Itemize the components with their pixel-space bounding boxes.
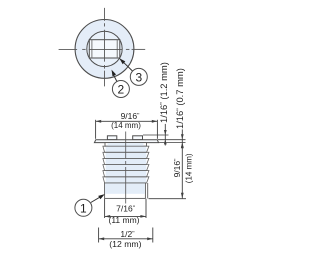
body-bottom extension line <box>149 198 187 200</box>
thread ridge 5 <box>103 171 149 177</box>
arrowhead down (boss height) <box>164 130 167 135</box>
balloon 2 leader line <box>113 74 117 82</box>
balloon 3 circle <box>130 68 147 85</box>
slot chamfer line right <box>116 40 118 58</box>
slot chamfer line left <box>91 40 93 58</box>
dimension line (thread dia) <box>99 238 153 240</box>
balloon 1 leader arrowhead <box>98 194 105 199</box>
arrowhead right (thread dia) <box>147 237 153 240</box>
svg-text:(11 mm): (11 mm) <box>108 215 139 225</box>
boss bump right (slot wall, front view) <box>133 136 143 140</box>
boss-top extension line <box>143 134 169 136</box>
arrowhead left (flange width) <box>96 120 102 123</box>
svg-text:(14 mm): (14 mm) <box>111 121 141 130</box>
thread core fill <box>106 146 147 183</box>
extension line left (flange width) <box>95 120 97 139</box>
arrowhead up (body length) <box>181 143 184 149</box>
slot rectangle (drive recess) <box>89 40 120 58</box>
vertical center line (front view) <box>125 132 127 204</box>
thread ridge 1 <box>103 146 149 152</box>
extension line right (pilot dia) <box>145 199 147 218</box>
horizontal center line (top view) <box>59 48 146 50</box>
flange-top extension line <box>158 139 186 141</box>
extension line left (pilot dia) <box>104 199 106 218</box>
thread ridge 3 <box>103 158 149 164</box>
arrowhead left (thread dia) <box>99 237 105 240</box>
arrowhead up (boss height) <box>164 139 167 144</box>
svg-text:1/16" (0.7 mm): 1/16" (0.7 mm) <box>174 68 185 129</box>
thread ridge 4 <box>103 165 149 171</box>
dimension line (pilot dia) <box>105 215 146 217</box>
dimension line (flange width) <box>96 120 158 122</box>
svg-text:(12 mm): (12 mm) <box>109 239 141 249</box>
extension line left (thread dia) <box>98 228 100 243</box>
flange (front view) <box>94 140 158 143</box>
extension line right (thread dia) <box>152 228 154 243</box>
arrowhead down (flange thickness) <box>181 134 184 139</box>
svg-text:9/16": 9/16" <box>121 111 141 121</box>
flange-bottom extension line <box>159 142 186 144</box>
svg-text:1/2": 1/2" <box>120 229 135 239</box>
balloon 1 circle <box>75 199 92 216</box>
arrowhead left (pilot dia) <box>105 215 111 218</box>
outer circle (flange rim, top view) <box>75 20 134 79</box>
svg-text:2: 2 <box>118 83 125 97</box>
arrowhead right (flange width) <box>152 120 158 123</box>
vertical center line (top view) <box>104 8 106 87</box>
neck below flange <box>105 143 147 147</box>
balloon 2 circle <box>112 81 129 98</box>
inner circle (body bore, top view) <box>87 31 122 66</box>
dimension line (boss height) <box>164 124 166 146</box>
bottom pilot section <box>105 183 146 198</box>
balloon 3 leader line <box>122 61 132 71</box>
thread ridge 6 <box>103 177 149 183</box>
thread ridge 2 <box>103 152 149 158</box>
balloon 1 leader line <box>91 196 102 202</box>
balloon 3 leader arrowhead <box>119 58 125 64</box>
svg-text:3: 3 <box>135 71 142 85</box>
svg-text:9/16": 9/16" <box>172 158 182 178</box>
balloon 2 leader arrowhead <box>112 70 117 77</box>
svg-text:7/16": 7/16" <box>116 204 136 214</box>
svg-text:1: 1 <box>80 202 87 216</box>
extension line right (flange width) <box>156 120 158 139</box>
dimension line (flange thickness / body length shared) <box>181 129 183 198</box>
svg-text:(14 mm): (14 mm) <box>185 153 194 183</box>
boss bump left (slot wall, front view) <box>107 136 116 140</box>
arrowhead right (pilot dia) <box>140 215 146 218</box>
arrowhead down (body length) <box>181 193 184 199</box>
pilot section outer edge line right <box>147 183 149 198</box>
svg-text:1/16" (1.2 mm): 1/16" (1.2 mm) <box>158 62 169 123</box>
arrowhead up (flange thickness) <box>181 143 184 148</box>
